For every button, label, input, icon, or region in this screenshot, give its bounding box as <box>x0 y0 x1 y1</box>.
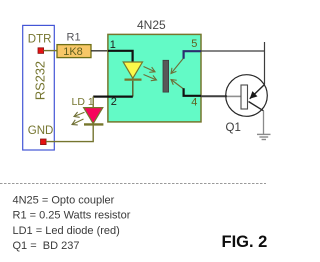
supply stub wire <box>264 42 266 51</box>
RS232 connector box <box>23 25 55 150</box>
Q1 base bar <box>241 85 248 109</box>
light arrow b <box>144 75 157 81</box>
pin 4 internal stub <box>184 88 201 96</box>
svg-text:RS232: RS232 <box>32 61 47 100</box>
opto-coupler U1 4N25 body <box>108 34 201 122</box>
wire LED cathode to pin 2 <box>132 81 134 97</box>
wire LD1 cathode to GND <box>46 125 93 142</box>
svg-text:FIG. 2: FIG. 2 <box>222 233 268 251</box>
svg-text:Q1: Q1 <box>226 122 241 134</box>
svg-text:Q1 = BD 237: Q1 = BD 237 <box>13 240 80 252</box>
svg-text:5: 5 <box>191 38 197 50</box>
light arrow a <box>144 67 156 72</box>
detector lead to pin 4 (arrow to bar) <box>171 80 184 90</box>
wire R1 to pin 1 <box>91 50 108 52</box>
wire pin 2 to LD1 <box>93 95 108 97</box>
svg-text:DTR: DTR <box>28 34 52 46</box>
photo detector bar <box>163 60 169 92</box>
pin 2 internal wire <box>108 95 133 97</box>
pin 5 internal stub <box>184 51 201 59</box>
svg-text:R1: R1 <box>67 32 81 44</box>
Q1 emitter lead with arrow <box>250 85 265 99</box>
wire pin 4 to Q1 base <box>201 95 227 97</box>
svg-text:4: 4 <box>191 97 197 109</box>
ground symbol <box>257 134 271 139</box>
GND pin (red square) <box>41 139 47 145</box>
base wire inside Q1 <box>227 95 241 97</box>
svg-text:4N25: 4N25 <box>137 18 166 32</box>
svg-text:R1 = 0.25 Watts resistor: R1 = 0.25 Watts resistor <box>13 210 131 222</box>
svg-text:LD1 = Led diode (red): LD1 = Led diode (red) <box>13 225 120 237</box>
Q1 collector lead <box>249 102 264 111</box>
transistor Q1 circle <box>226 75 268 117</box>
LD1 emission arrow b <box>72 119 84 125</box>
wire down to LD1 anode <box>92 97 94 108</box>
resistor R1 body <box>57 45 91 58</box>
LD1 cathode bar <box>84 123 103 125</box>
wire down to Q1 emitter <box>264 51 266 85</box>
internal LED of 4N25 <box>123 62 142 78</box>
wire Q1 to ground <box>263 111 265 134</box>
svg-text:GND: GND <box>28 125 54 137</box>
LED LD1 triangle <box>84 108 103 124</box>
svg-text:4N25 = Opto coupler: 4N25 = Opto coupler <box>13 195 115 207</box>
internal LED cathode bar <box>125 78 142 80</box>
wire DTR to R1 <box>44 50 58 52</box>
pin 1 internal wire <box>108 51 133 62</box>
svg-text:1: 1 <box>110 39 116 51</box>
LD1 emission arrow a <box>74 112 85 116</box>
detector lead to pin 5 (arrow to bar) <box>171 58 184 74</box>
svg-text:1K8: 1K8 <box>63 46 83 58</box>
DTR pin (red square) <box>38 48 44 54</box>
svg-text:LD 1: LD 1 <box>72 96 94 108</box>
wire pin 5 to collector node <box>201 50 265 52</box>
svg-text:2: 2 <box>111 96 117 108</box>
separator line <box>0 183 266 185</box>
